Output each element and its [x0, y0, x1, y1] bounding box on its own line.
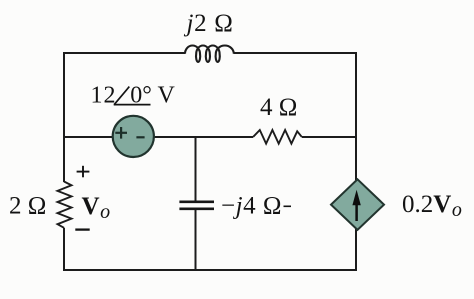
wire right upper (top corner down to diamond) [355, 52, 357, 180]
svg-text:−j4 Ω: −j4 Ω [221, 193, 282, 220]
wire middle right (4ohm resistor to right rail) [302, 136, 357, 138]
label 12 angle 0 V [91, 83, 176, 109]
resistor R1 2 ohm zigzag [58, 182, 72, 228]
wire right lower (diamond to bottom corner) [355, 229, 357, 271]
wire bottom [64, 269, 358, 271]
svg-text:2 Ω: 2 Ω [9, 193, 46, 220]
resistor R2 4 ohm zigzag [253, 130, 302, 144]
svg-text:j2 Ω: j2 Ω [184, 10, 234, 37]
svg-text:Vo: Vo [82, 193, 111, 223]
wire middle branch lower (capacitor to bottom wire) [195, 210, 197, 271]
svg-text:0.2Vo: 0.2Vo [402, 191, 462, 221]
wire left lower (2ohm resistor to bottom corner) [63, 228, 65, 271]
svg-text:12: 12 [91, 83, 117, 109]
label plus sign of Vo [77, 166, 90, 178]
wire middle center (source V1 to 4ohm resistor, node B junction) [154, 136, 254, 138]
dash artifact after -j4 ohm label [284, 205, 292, 207]
capacitor C1 -j4 ohm plates [179, 202, 214, 209]
wire top right segment [234, 52, 357, 54]
svg-text:4 Ω: 4 Ω [260, 94, 297, 121]
dependent current source I1 0.2Vo (diamond) [331, 179, 384, 230]
svg-text:0° V: 0° V [130, 83, 175, 109]
wire middle branch upper (node B down to capacitor) [195, 137, 197, 201]
wire middle left (left rail to source V1) [64, 136, 115, 138]
inductor L1 j2 ohm [185, 46, 234, 62]
label minus sign of Vo [75, 228, 89, 230]
wire left upper (top corner to 2ohm resistor) [63, 52, 65, 182]
wire top left segment [64, 52, 186, 54]
voltage source V1 12 angle 0 V [113, 116, 154, 157]
